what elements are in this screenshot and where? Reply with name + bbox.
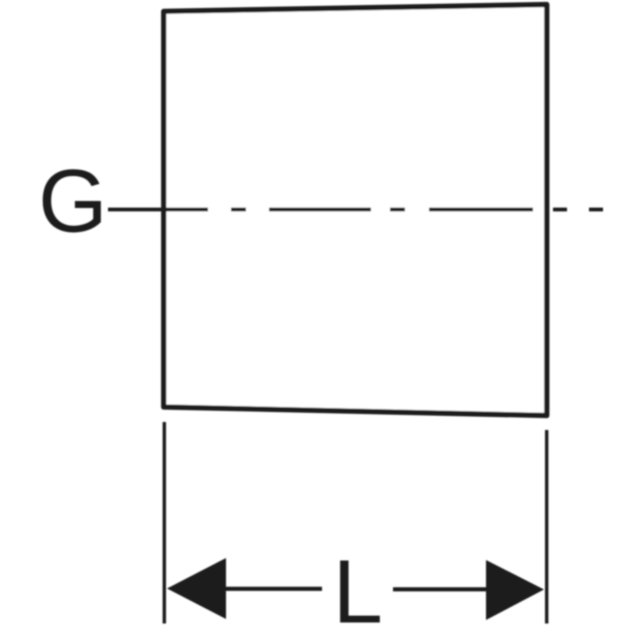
body outline (tapered plug): [164, 5, 547, 416]
arrowhead right: [486, 560, 544, 620]
centerline (dash-dot axis): [108, 208, 603, 212]
dimension line left segment: [222, 587, 322, 591]
dimension line right segment: [393, 587, 487, 591]
arrowhead left: [167, 558, 226, 619]
extension line left: [163, 422, 166, 624]
svg-text:G: G: [38, 151, 107, 251]
extension line right: [545, 430, 548, 624]
svg-text:L: L: [333, 543, 383, 640]
